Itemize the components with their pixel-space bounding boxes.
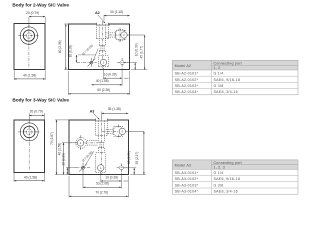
- 3-way side view body outline: [14, 120, 44, 173]
- dim 40 (1.58) bottom: [91, 84, 122, 86]
- cavity A3 dashed bore: [95, 121, 97, 136]
- dim 10 (0.39) right: [124, 62, 137, 64]
- dim 40 (1.58): [13, 173, 15, 182]
- svg-text:SB-A2-0101*: SB-A2-0101*: [175, 72, 199, 76]
- svg-text:SAE6, 9/16-18: SAE6, 9/16-18: [214, 177, 241, 181]
- svg-text:73 (2.87): 73 (2.87): [50, 132, 54, 145]
- svg-text:1, 2: 1, 2: [214, 66, 221, 70]
- dim 10 (0.39) left inner: [76, 55, 78, 63]
- port 2 dashed boss: [115, 29, 126, 40]
- dim 10 (0.39) left inner (3-way): [66, 167, 76, 169]
- leader Ø7 (0.28) (3-way): [85, 151, 94, 166]
- svg-text:SB-A2-0103*: SB-A2-0103*: [175, 84, 199, 88]
- dim 20 (0.79): [28, 17, 30, 26]
- dim 40 (1.58) left: [62, 142, 77, 144]
- svg-text:SAE8, 3/4-16: SAE8, 3/4-16: [214, 90, 238, 94]
- svg-text:SAE6, 9/16-18: SAE6, 9/16-18: [214, 78, 241, 82]
- svg-text:20 (0.79): 20 (0.79): [30, 110, 43, 114]
- dim 10 (0.39) right (3-way): [124, 167, 136, 169]
- port 1 marker (3-way): [98, 165, 104, 171]
- port 2 centerlines: [109, 34, 121, 36]
- 3-way side view centerlines: [18, 131, 40, 133]
- 2-way side view body outline: [14, 24, 45, 70]
- svg-text:10 (0.39): 10 (0.39): [105, 175, 118, 179]
- cavity opening rim stubs (3-way): [95, 119, 97, 121]
- dim 53 (2.08) bottom: [82, 171, 84, 189]
- 2-way front view body outline: [69, 24, 130, 70]
- port 2 dashed boss circle (3-way): [76, 138, 87, 149]
- left mounting hole with thread slash: [90, 61, 93, 64]
- svg-text:35 (1.38): 35 (1.38): [108, 107, 121, 111]
- dim 70 (2.76) bottom: [68, 176, 70, 198]
- cavity thread zigzag at opening: [96, 120, 108, 121]
- svg-text:SB-A3-0103*: SB-A3-0103*: [175, 183, 199, 187]
- port 3 dashed boss: [113, 126, 123, 136]
- left mounting hole with thread slash (3-way): [82, 166, 85, 169]
- svg-text:G 1/4: G 1/4: [214, 72, 224, 76]
- dim 40 (1.58): [13, 70, 15, 80]
- 3-way front view body outline: [69, 120, 128, 175]
- svg-text:G 1/4: G 1/4: [214, 171, 224, 175]
- svg-text:Model A2: Model A2: [175, 64, 192, 68]
- cavity opening rim stubs: [96, 23, 98, 25]
- 3-way side view cavity circles: [20, 123, 38, 141]
- svg-text:G 3/8: G 3/8: [214, 84, 224, 88]
- port 2 marker (3-way): [77, 140, 83, 146]
- port 2 leader line: [127, 34, 145, 36]
- dim 30 (1.18) top: [103, 15, 105, 21]
- svg-text:40 (1.58): 40 (1.58): [24, 175, 37, 179]
- dim 10 (0.39) bottom: [103, 68, 105, 79]
- dim 20 (0.79): [28, 113, 30, 123]
- svg-text:SAE8, 3/4-16: SAE8, 3/4-16: [214, 190, 238, 194]
- port 3 leader line: [126, 130, 144, 132]
- svg-text:Connecting port: Connecting port: [214, 161, 242, 165]
- dim 10 (0.39) bottom (3-way): [100, 173, 102, 182]
- svg-text:SB-A2-0104*: SB-A2-0104*: [175, 90, 199, 94]
- leader Ø7 (0.28): [93, 49, 98, 61]
- svg-text:40 (1.58): 40 (1.58): [96, 79, 109, 83]
- svg-text:40 (1.58): 40 (1.58): [23, 74, 36, 78]
- svg-text:A2: A2: [95, 11, 100, 15]
- cavity centerline: [102, 21, 104, 69]
- svg-text:Model A3: Model A3: [175, 164, 192, 168]
- svg-text:53 (2.08): 53 (2.08): [96, 182, 109, 186]
- port 3 marker: [119, 128, 125, 134]
- right mounting hole dashed: [120, 60, 124, 64]
- right mounting hole dashed (3-way): [119, 166, 123, 170]
- 2-way side view cavity circles: [20, 27, 37, 44]
- svg-text:Body for 2-Way SIC Valve: Body for 2-Way SIC Valve: [12, 3, 69, 8]
- svg-text:Body for 3-Way SIC Valve: Body for 3-Way SIC Valve: [12, 98, 69, 103]
- cavity thread zigzag at opening: [97, 24, 111, 25]
- dim 60 (2.36) left: [64, 23, 68, 25]
- svg-text:10 (0.39): 10 (0.39): [127, 151, 131, 164]
- svg-text:60 (2.36): 60 (2.36): [97, 88, 110, 92]
- table Model A3: [172, 160, 298, 170]
- svg-text:70 (2.76): 70 (2.76): [95, 191, 108, 195]
- svg-text:30 (1.18): 30 (1.18): [110, 10, 123, 14]
- 2-way side view centerlines: [18, 35, 39, 37]
- dim 45 (1.77) right: [131, 69, 147, 71]
- dim 60 (2.36) bottom: [68, 71, 70, 95]
- table Model A2: [172, 60, 298, 70]
- svg-text:10 (0.39): 10 (0.39): [68, 45, 72, 58]
- svg-text:SB-A3-0101*: SB-A3-0101*: [175, 171, 199, 175]
- port 2 passage dashes (3-way): [87, 140, 98, 142]
- dim 35 (1.38) top: [101, 112, 103, 118]
- port 2 passage dashes: [106, 32, 115, 34]
- svg-text:A3: A3: [90, 109, 95, 113]
- port 2 marker: [121, 32, 127, 38]
- port 1 boss dashed square: [98, 57, 100, 67]
- svg-text:10 (0.39): 10 (0.39): [104, 73, 117, 77]
- svg-text:SB-A3-0104*: SB-A3-0104*: [175, 190, 199, 194]
- cavity A2 dashed bore: [96, 25, 98, 39]
- svg-text:20 (0.79): 20 (0.79): [26, 11, 39, 15]
- svg-text:1, 2, 3: 1, 2, 3: [214, 166, 225, 170]
- cavity centerline (3-way): [101, 117, 103, 174]
- port 1 marker: [100, 59, 106, 65]
- svg-text:SB-A3-0102*: SB-A3-0102*: [175, 177, 199, 181]
- svg-text:55 (2.17): 55 (2.17): [135, 152, 139, 165]
- svg-text:10 (0.39): 10 (0.39): [62, 153, 66, 166]
- dim 55 (2.17) right: [130, 174, 146, 176]
- svg-text:SB-A2-0102*: SB-A2-0102*: [175, 78, 199, 82]
- svg-text:10 (0.39): 10 (0.39): [135, 43, 139, 56]
- svg-text:Connecting port: Connecting port: [214, 61, 242, 65]
- svg-text:G 3/8: G 3/8: [214, 183, 224, 187]
- port 3 passage dashes (3-way): [106, 128, 113, 130]
- dim 73 (2.87) left: [55, 119, 69, 121]
- port 1 boss dashed square (3-way): [95, 154, 97, 172]
- svg-text:45 (1.77): 45 (1.77): [139, 46, 143, 59]
- svg-text:60 (2.36): 60 (2.36): [58, 40, 62, 53]
